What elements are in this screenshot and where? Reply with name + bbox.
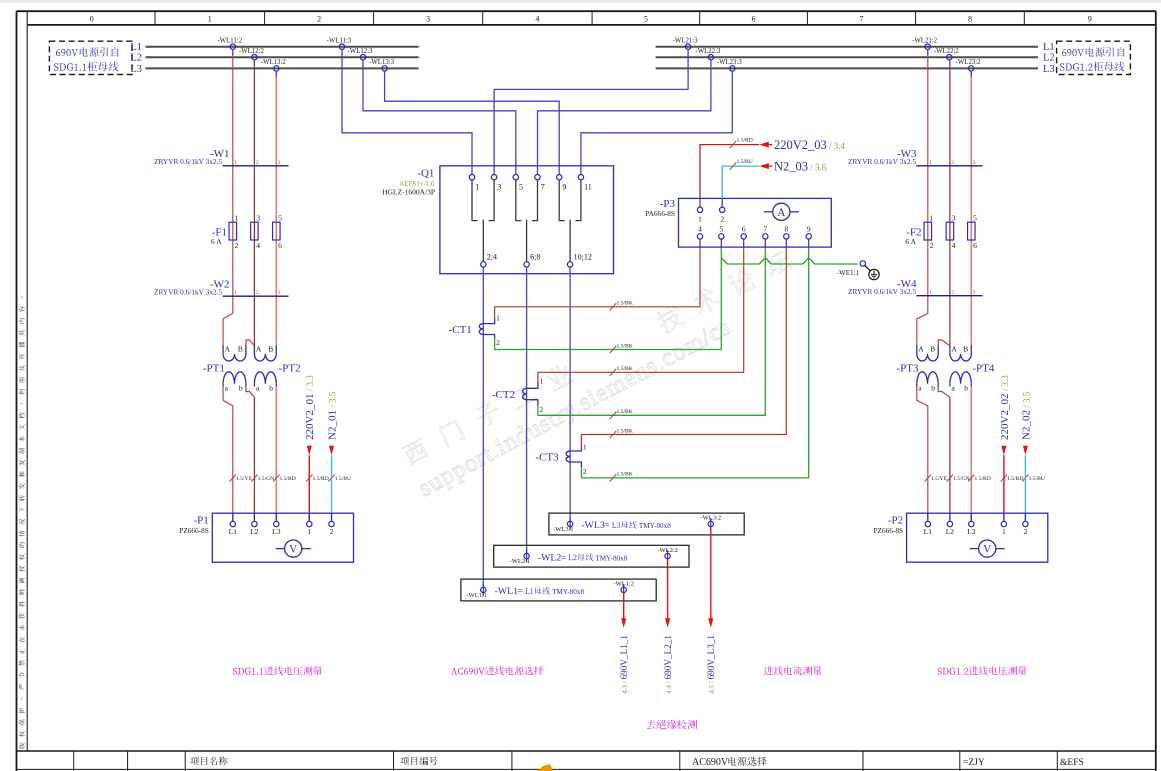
svg-text:-WL2: -WL2 (538, 552, 561, 563)
svg-text:1: 1 (583, 443, 587, 452)
svg-text:=: = (561, 553, 566, 563)
svg-text:-WL1:1: -WL1:1 (466, 592, 487, 599)
svg-text:2: 2 (539, 405, 543, 414)
svg-text:&EFS: &EFS (1060, 758, 1084, 768)
switch Q1 box (440, 166, 614, 274)
bus L1 left (146, 46, 419, 48)
wire -CT1 pin1 (red) to P3 (495, 247, 700, 318)
svg-text:3: 3 (256, 214, 260, 223)
svg-text:-CT3: -CT3 (535, 451, 559, 463)
svg-text:2: 2 (317, 14, 321, 23)
wire left L1 vertical (223, 49, 233, 345)
ruler column dividers (154, 11, 156, 25)
svg-text:-WL21:3: -WL21:3 (673, 38, 699, 45)
svg-text:1: 1 (496, 314, 500, 323)
ammeter symbol (764, 211, 773, 213)
svg-text:-WL13:2: -WL13:2 (261, 59, 287, 66)
svg-text:8: 8 (968, 14, 972, 23)
busbar WL1 box (461, 579, 656, 601)
svg-text:6: 6 (742, 225, 746, 234)
svg-text:3: 3 (278, 160, 281, 166)
wire PT2.a down to P1 (253, 397, 255, 521)
svg-text:2: 2 (1024, 527, 1028, 536)
svg-text:-WL21:2: -WL21:2 (912, 38, 938, 45)
svg-text:1.5/BK: 1.5/BK (617, 343, 633, 349)
svg-text:-WL23:3: -WL23:3 (717, 59, 743, 66)
wire P3 pin2 to N2_03 (722, 166, 759, 198)
transformer -PT1 (222, 345, 224, 354)
svg-text:=ZJY: =ZJY (963, 758, 985, 768)
svg-text:-Q1: -Q1 (417, 168, 434, 180)
wire PT2.b down to P1 (275, 387, 277, 522)
copyright strip text (19, 296, 25, 748)
svg-text:=: = (604, 521, 609, 531)
svg-text:TMY-80x8: TMY-80x8 (552, 588, 584, 596)
svg-text:L2: L2 (1043, 53, 1055, 64)
svg-text:7: 7 (763, 225, 767, 234)
current transformer -CT2 (523, 388, 527, 399)
svg-text:6 A: 6 A (905, 237, 916, 246)
busbar WL3 box (549, 513, 744, 535)
svg-text:-WL3:1: -WL3:1 (553, 526, 574, 533)
svg-text:4: 4 (535, 14, 539, 23)
Q1 contacts pins 9,11 (557, 175, 562, 180)
source box SDG1.2 (1057, 41, 1131, 74)
terminal -WL11:2 (230, 44, 235, 49)
wire -CT1 pin2 (green) to P3 (495, 247, 722, 349)
svg-text:PA666-8S: PA666-8S (645, 209, 675, 218)
svg-text:B: B (268, 345, 273, 354)
svg-text:9: 9 (562, 183, 566, 192)
svg-text:1.5/BK: 1.5/BK (617, 301, 633, 307)
svg-text:B: B (238, 345, 243, 354)
svg-text:2: 2 (930, 241, 934, 250)
svg-text:1.5/BK: 1.5/BK (617, 366, 633, 372)
svg-text:1.5/BU: 1.5/BU (1029, 476, 1045, 482)
svg-text:1: 1 (929, 290, 932, 296)
wire L3-left to Q1 pin9 (385, 71, 560, 174)
svg-text:2: 2 (256, 160, 259, 166)
svg-text:-P3: -P3 (660, 198, 676, 210)
source box SDG1.1 (49, 41, 132, 74)
svg-text:1.5/BU: 1.5/BU (335, 476, 351, 482)
svg-text:0: 0 (90, 14, 94, 23)
svg-text:b: b (931, 384, 935, 393)
svg-text:6 A: 6 A (211, 237, 222, 246)
svg-text:4.4 / 690V_L2_1: 4.4 / 690V_L2_1 (663, 635, 673, 694)
svg-text:5: 5 (519, 183, 523, 192)
svg-text:2;4: 2;4 (487, 253, 497, 262)
svg-text:TMY-80x8: TMY-80x8 (595, 554, 627, 562)
wire PT1.b to L2 link (246, 387, 255, 398)
svg-text:-WL12:3: -WL12:3 (348, 48, 374, 55)
svg-text:-P2: -P2 (888, 515, 903, 527)
svg-text:-CT2: -CT2 (492, 389, 515, 401)
svg-text:3: 3 (973, 290, 976, 296)
svg-text:-P1: -P1 (194, 515, 209, 527)
svg-text:3: 3 (952, 214, 956, 223)
wire PT1.a down to P1 (223, 387, 233, 522)
svg-text:PZ666-8S: PZ666-8S (873, 526, 903, 535)
wire L2-left to Q1 pin5 (363, 60, 516, 175)
svg-text:1: 1 (1002, 527, 1006, 536)
svg-text:2: 2 (583, 467, 587, 476)
wire PT4.a down to P2 (949, 397, 951, 521)
svg-text:2: 2 (235, 241, 239, 250)
svg-text:N2_01 / 3.5: N2_01 / 3.5 (326, 391, 338, 440)
svg-text:220V2_01 / 3.3: 220V2_01 / 3.3 (304, 375, 316, 440)
terminal -WL21:2 (925, 44, 930, 49)
terminal -WL2:2 (667, 550, 669, 562)
svg-text:2: 2 (951, 290, 954, 296)
svg-text:ZRYVR 0.6/1kV 3x2.5: ZRYVR 0.6/1kV 3x2.5 (154, 288, 222, 297)
svg-text:-WL3:2: -WL3:2 (701, 515, 722, 522)
svg-text:-WL22:3: -WL22:3 (695, 48, 721, 55)
ground terminal WE1:1 (860, 261, 865, 266)
svg-text:7: 7 (860, 14, 864, 23)
svg-text:1.5/YE: 1.5/YE (931, 476, 948, 482)
cable W3 (916, 165, 982, 167)
terminal -WL13:3 (382, 66, 387, 71)
wire left L3 vertical (275, 71, 277, 345)
svg-text:b: b (964, 384, 968, 393)
svg-text:-CT1: -CT1 (449, 324, 472, 336)
svg-text:-PT2: -PT2 (279, 363, 301, 375)
svg-text:-WL22:2: -WL22:2 (934, 48, 960, 55)
svg-text:1: 1 (475, 183, 479, 192)
svg-text:3: 3 (973, 160, 976, 166)
svg-text:L3: L3 (272, 527, 281, 536)
terminal -WL21:3 (685, 44, 690, 49)
svg-text:A: A (918, 345, 924, 354)
svg-text:5: 5 (278, 214, 282, 223)
watermark chinese (401, 248, 793, 467)
svg-text:ZRYVR 0.6/1kV 3x2.5: ZRYVR 0.6/1kV 3x2.5 (848, 157, 916, 166)
terminal -WL22:3 (708, 55, 713, 60)
svg-text:A: A (256, 345, 262, 354)
svg-text:8: 8 (784, 225, 788, 234)
wire PT4.b down to P2 (970, 387, 972, 522)
svg-text:1.5/RD: 1.5/RD (975, 476, 991, 482)
svg-text:HGLZ-1600A/3P: HGLZ-1600A/3P (382, 188, 435, 197)
wire P3 pin1 to 220V2_03 (700, 145, 759, 199)
svg-text:9: 9 (807, 225, 811, 234)
svg-text:4: 4 (698, 225, 702, 234)
svg-text:L3: L3 (1043, 64, 1055, 75)
Q1 contacts pins 5,7 (513, 175, 518, 180)
svg-text:-WL1: -WL1 (495, 586, 518, 597)
svg-text:4: 4 (952, 241, 956, 250)
svg-text:A: A (777, 207, 786, 219)
svg-text:4: 4 (256, 241, 260, 250)
busbar WL2 box (494, 545, 689, 567)
wire L1-left to Q1 pin1 (342, 49, 472, 174)
terminal -WL23:2 (968, 66, 973, 71)
svg-text:N2_02 / 3.5: N2_02 / 3.5 (1020, 391, 1032, 440)
svg-text:2: 2 (496, 338, 500, 347)
wire right L1 vertical (917, 49, 928, 345)
wire -CT2 pin1 (red) to P3 (538, 247, 744, 381)
wire right L2 vertical (949, 60, 951, 346)
wire L3-right to Q1 pin11 (581, 71, 732, 174)
svg-text:2: 2 (330, 527, 334, 536)
svg-text:220V2_02 / 3.3: 220V2_02 / 3.3 (999, 375, 1011, 440)
terminal -WL23:3 (730, 66, 735, 71)
svg-text:b: b (239, 384, 243, 393)
terminal -WL1:2 (623, 584, 625, 596)
svg-text:9: 9 (1088, 14, 1092, 23)
terminal -WL22:2 (947, 55, 952, 60)
caption AC690V (451, 666, 543, 675)
svg-text:B: B (930, 345, 935, 354)
terminal -WL3:2 (710, 518, 712, 530)
wire Q1 6;8 to WL2:1 (526, 267, 528, 553)
wire -CT3 pin2 (green) to P3 (581, 247, 808, 478)
svg-text:5: 5 (644, 14, 648, 23)
arrow to insulation check L2 (667, 559, 669, 619)
svg-text:1: 1 (539, 377, 543, 386)
svg-text:1: 1 (235, 214, 239, 223)
svg-text:L1: L1 (924, 527, 933, 536)
current transformer -CT1 (479, 324, 483, 335)
arrow 220V2_01 (307, 446, 312, 455)
svg-text:4.5 / 690V_L3_1: 4.5 / 690V_L3_1 (706, 635, 716, 694)
wire gauge labels P2 (925, 474, 931, 481)
svg-text:-WL13:3: -WL13:3 (369, 59, 395, 66)
svg-text:6: 6 (973, 241, 977, 250)
svg-text:6;8: 6;8 (530, 253, 540, 262)
transformer -PT2 (253, 345, 255, 354)
svg-text:A: A (951, 345, 957, 354)
terminal -WL13:2 (274, 66, 279, 71)
svg-text:L1: L1 (1043, 42, 1055, 53)
svg-text:1: 1 (929, 160, 932, 166)
svg-text:V: V (289, 544, 298, 556)
wire Q1 2;4 to WL1:1 (482, 267, 484, 586)
svg-text:AC690V: AC690V (692, 757, 729, 768)
svg-text:11: 11 (584, 183, 592, 192)
svg-text:-WL1:2: -WL1:2 (613, 581, 634, 588)
wire PT3.b to L2 link (938, 387, 950, 398)
wire -CT2 pin2 (green) to P3 (538, 247, 765, 415)
svg-text:7: 7 (541, 183, 545, 192)
arrow to insulation check L3 (710, 527, 712, 619)
svg-text:6: 6 (752, 14, 756, 23)
wire -CT3 pin1 (red) to P3 (581, 247, 786, 447)
wire left L2 vertical (253, 60, 255, 346)
svg-text:5: 5 (719, 225, 723, 234)
logo fragment (537, 764, 553, 771)
wire gauge labels P1 (230, 474, 236, 481)
svg-text:-WL3: -WL3 (581, 520, 604, 531)
Q1 contacts pins 1,3 (469, 175, 474, 180)
svg-text:2: 2 (256, 290, 259, 296)
terminal -WL11:3 (339, 44, 344, 49)
caption current measure (764, 666, 822, 675)
svg-text:3: 3 (278, 290, 281, 296)
svg-text:-WE1:1: -WE1:1 (837, 269, 860, 277)
bus L2 right (656, 56, 1038, 58)
svg-text:TMY-80x8: TMY-80x8 (639, 522, 671, 530)
terminal -WL1:1 (482, 584, 484, 596)
svg-text:1: 1 (307, 527, 311, 536)
top gray strip (0, 0, 1161, 3)
meter -P1 (212, 513, 353, 562)
svg-text:-WL23:2: -WL23:2 (956, 59, 982, 66)
svg-text:2: 2 (720, 214, 724, 223)
svg-text:220V2_03 / 3.4: 220V2_03 / 3.4 (774, 138, 846, 152)
svg-text:1.5/GN: 1.5/GN (953, 476, 970, 482)
svg-text:1.5/RD: 1.5/RD (1007, 476, 1023, 482)
svg-text:PZ666-8S: PZ666-8S (179, 526, 209, 535)
svg-text:5: 5 (973, 214, 977, 223)
current transformer -CT3 (566, 451, 570, 462)
terminal -WL12:2 (252, 55, 257, 60)
svg-text:-WL11:3: -WL11:3 (327, 38, 352, 45)
svg-text:b: b (269, 384, 273, 393)
svg-text:1.5/BK: 1.5/BK (617, 409, 633, 415)
svg-text:1.5/YE: 1.5/YE (236, 476, 253, 482)
svg-text:1.5/RD: 1.5/RD (280, 476, 296, 482)
svg-text:V: V (983, 544, 992, 556)
svg-text:ZRYVR 0.6/1kV 3x2.5: ZRYVR 0.6/1kV 3x2.5 (154, 157, 222, 166)
svg-text:B: B (963, 345, 968, 354)
meter P3 box (679, 198, 832, 247)
bus L3 left (146, 67, 419, 69)
cable W4 (916, 295, 982, 297)
terminal -WL3:1 (569, 518, 571, 530)
transformer -PT3 (916, 345, 918, 354)
svg-text:1.5/BU: 1.5/BU (737, 159, 753, 165)
svg-text:-WL2:2: -WL2:2 (657, 547, 678, 554)
arrow N2_01 (329, 446, 334, 455)
arrow N2_02 (1023, 446, 1028, 455)
wire PT1.B to L2 link (246, 340, 255, 346)
meter -P2 (907, 513, 1048, 562)
wire PT3.B to L2 link (938, 340, 950, 346)
svg-text:-PT4: -PT4 (972, 363, 995, 375)
wire right L3 vertical (970, 71, 972, 345)
bus L1 right (656, 46, 1038, 48)
svg-text:1: 1 (208, 14, 212, 23)
svg-text:3: 3 (497, 183, 501, 192)
wire L1-right to Q1 pin3 (494, 49, 688, 174)
svg-text:1.5/BK: 1.5/BK (617, 428, 633, 434)
terminal -WL2:1 (526, 550, 528, 562)
wire Q1 10;12 to WL3:1 (569, 267, 571, 521)
caption SDG1.1 (233, 666, 322, 675)
wire L2-right to Q1 pin7 (538, 60, 711, 175)
svg-text:1: 1 (698, 214, 702, 223)
title block (17, 750, 1156, 752)
svg-text:-WL11:2: -WL11:2 (217, 38, 242, 45)
arrow 220V2_02 (1001, 446, 1006, 455)
cable W1 (223, 165, 289, 167)
svg-text:-PT3: -PT3 (897, 363, 920, 375)
svg-text:4.3 / 690V_L1_1: 4.3 / 690V_L1_1 (619, 635, 629, 694)
arrow to insulation check L1 (623, 593, 625, 619)
svg-text:1.5/BK: 1.5/BK (617, 472, 633, 478)
wire PT3.a down to P2 (917, 387, 928, 522)
svg-text:L1: L1 (229, 527, 238, 536)
caption SDG1.2 (938, 666, 1027, 675)
ground symbol (865, 266, 871, 272)
svg-text:1: 1 (234, 160, 237, 166)
svg-text:N2_03 / 3.6: N2_03 / 3.6 (774, 160, 827, 174)
svg-text:-WL2:1: -WL2:1 (510, 558, 531, 565)
svg-text:1.5/GN: 1.5/GN (258, 476, 275, 482)
outer border frame (17, 10, 1156, 12)
svg-text:L3: L3 (967, 527, 976, 536)
svg-text:=: = (518, 587, 523, 597)
svg-text:1.5/RD: 1.5/RD (737, 138, 753, 144)
caption insulation check (647, 720, 697, 729)
transformer -PT4 (949, 345, 951, 354)
bus L3 right (656, 67, 1038, 69)
green PE bus (721, 258, 857, 264)
svg-text:A: A (225, 345, 231, 354)
svg-text:-PT1: -PT1 (203, 363, 225, 375)
svg-text:1.5/RD: 1.5/RD (313, 476, 329, 482)
terminal stubs blue (232, 49, 234, 55)
bus L2 left (146, 56, 419, 58)
terminal -WL12:3 (360, 55, 365, 60)
svg-text:6: 6 (278, 241, 282, 250)
svg-text:L2: L2 (250, 527, 259, 536)
svg-text:1: 1 (234, 290, 237, 296)
cable W2 (223, 295, 289, 297)
svg-text:2: 2 (951, 160, 954, 166)
svg-text:-WL12:2: -WL12:2 (239, 48, 265, 55)
svg-text:10;12: 10;12 (574, 253, 592, 262)
svg-text:ZRYVR 0.6/1kV 3x2.5: ZRYVR 0.6/1kV 3x2.5 (848, 287, 916, 296)
svg-text:3: 3 (426, 14, 430, 23)
svg-text:L2: L2 (946, 527, 955, 536)
svg-text:1: 1 (930, 214, 934, 223)
